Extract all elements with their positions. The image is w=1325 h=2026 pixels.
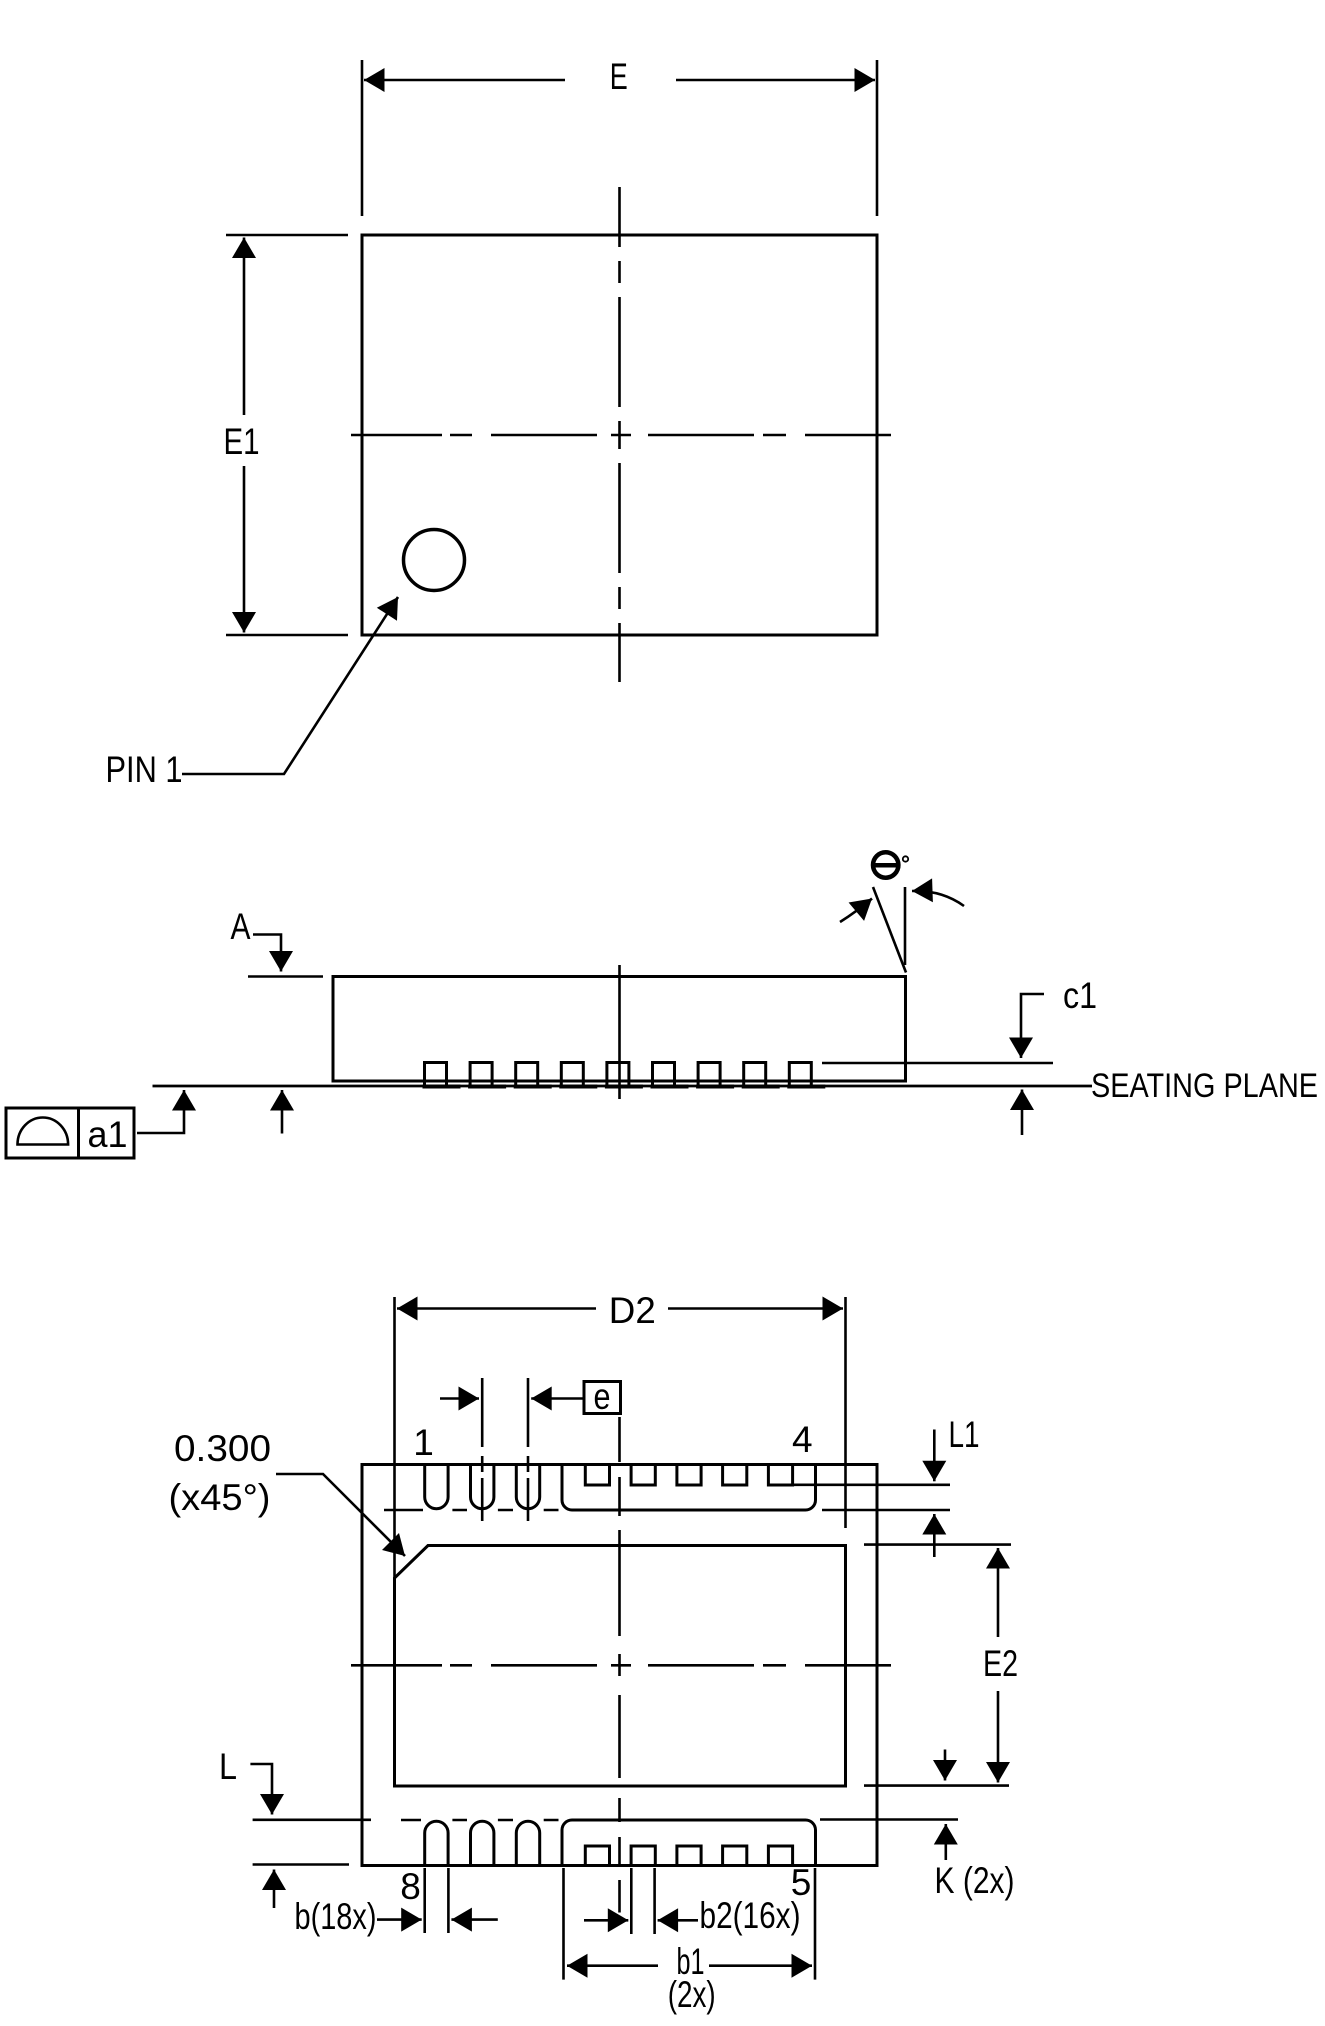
svg-text:4: 4 <box>792 1419 813 1460</box>
a1 leader with up arrow <box>137 1090 184 1133</box>
b1 dimension arrow right-pointing <box>709 1964 812 1967</box>
E2 dimension arrow down <box>997 1691 1000 1783</box>
theta slant edge line <box>873 887 906 973</box>
top view package body outline <box>362 235 877 635</box>
theta arc arrow right <box>912 891 964 906</box>
c1 extension line lead top <box>822 1062 1053 1065</box>
top slot pin 1 <box>425 1464 448 1509</box>
e label box <box>584 1382 621 1414</box>
svg-text:b2(16x): b2(16x) <box>700 1895 801 1936</box>
svg-text:L: L <box>219 1746 237 1787</box>
svg-text:A: A <box>231 906 251 947</box>
b dimension arrow right-pointing <box>377 1918 422 1921</box>
b1 extension lines <box>564 1868 816 1980</box>
top slot pin 3 <box>516 1464 539 1509</box>
L1 leader down arrow <box>933 1430 936 1482</box>
bottom wide lead pin 5 <box>562 1820 816 1866</box>
L1 extension line upper <box>793 1484 950 1487</box>
E1 extension line top <box>226 234 348 237</box>
bottom view horizontal centerline <box>351 1664 891 1667</box>
svg-text:K (2x): K (2x) <box>935 1860 1015 1901</box>
D2 extension line right <box>844 1297 847 1528</box>
bottom lead tip phantom dashes <box>401 1819 559 1822</box>
svg-text:e: e <box>594 1376 611 1417</box>
pin 1 index circle <box>404 530 465 591</box>
L up arrow <box>273 1870 276 1909</box>
svg-text:0.300: 0.300 <box>174 1428 271 1469</box>
svg-text:c1: c1 <box>1063 975 1097 1016</box>
E2 dimension arrow up <box>997 1548 1000 1637</box>
seating plane up arrow right <box>1021 1090 1024 1136</box>
lead feet bottom flanges <box>423 1085 826 1089</box>
e dimension pin2 centerline <box>481 1378 484 1447</box>
svg-text:L1: L1 <box>949 1414 980 1455</box>
a1 datum feature box <box>6 1108 134 1158</box>
K leader down arrow <box>944 1750 947 1781</box>
b2 dimension arrow left-pointing <box>658 1919 698 1922</box>
D2 dimension arrow left <box>397 1307 596 1310</box>
side view vertical centerline <box>618 965 621 1099</box>
K up arrow <box>944 1824 947 1860</box>
chamfer leader 0.300 <box>276 1474 405 1556</box>
bottom lead notches <box>585 1846 792 1866</box>
thermal pad outline with pin1 chamfer <box>395 1546 846 1787</box>
svg-text:PIN 1: PIN 1 <box>106 749 183 790</box>
b1 dimension arrow left-pointing <box>567 1964 658 1967</box>
theta reference vertical line <box>904 887 907 965</box>
bottom view vertical centerline <box>618 1417 621 1913</box>
svg-text:(x45°): (x45°) <box>169 1477 271 1518</box>
svg-text:8: 8 <box>400 1866 421 1907</box>
theta arc arrow left <box>840 899 872 923</box>
E1 dimension arrow down <box>243 466 246 633</box>
A leader with down arrow <box>253 935 281 972</box>
E2 extension line top <box>864 1543 1011 1546</box>
D2 dimension arrow right <box>668 1307 843 1310</box>
e dimension arrow left-pointing <box>531 1397 583 1400</box>
A extension line <box>248 975 323 978</box>
side view package body outline <box>333 977 906 1082</box>
theta symbol <box>871 852 901 877</box>
bottom slot pin 8 <box>425 1821 448 1866</box>
E dimension arrow left <box>364 79 565 82</box>
L lower extension line <box>253 1863 349 1866</box>
E2 extension line bottom <box>864 1784 1009 1787</box>
b dimension arrow left-pointing <box>451 1918 497 1921</box>
top lead tip phantom dashes <box>384 1509 559 1512</box>
L1 extension line lower <box>822 1509 950 1512</box>
svg-text:1: 1 <box>413 1422 434 1463</box>
seating plane line <box>153 1085 1093 1088</box>
E dimension extension line left <box>361 60 364 216</box>
b2 extension lines <box>631 1868 654 1934</box>
top view horizontal centerline <box>351 434 891 437</box>
bottom slot pin 6 <box>516 1821 539 1866</box>
K extension line <box>820 1818 958 1821</box>
a1 second up arrow <box>281 1090 284 1134</box>
bottom slot pin 7 <box>471 1821 494 1866</box>
svg-text:D2: D2 <box>609 1290 656 1331</box>
svg-text:b(18x): b(18x) <box>295 1896 377 1937</box>
L extension line <box>253 1819 371 1822</box>
svg-text:E: E <box>610 56 628 97</box>
degree mark <box>903 856 908 861</box>
e dimension arrow right-pointing <box>440 1397 479 1400</box>
E dimension arrow right <box>676 79 875 82</box>
e dimension pin3 centerline <box>527 1378 530 1447</box>
L leader with down arrow <box>250 1764 272 1815</box>
pin 1 leader line <box>182 597 398 774</box>
b extension lines <box>425 1868 449 1933</box>
lead feet squares <box>425 1063 812 1087</box>
E1 extension line bottom <box>226 634 348 637</box>
E dimension extension line right <box>876 60 879 216</box>
bottom view package outline <box>362 1465 877 1866</box>
top wide lead pin 4 <box>562 1465 816 1511</box>
top slot pin 2 <box>471 1464 494 1509</box>
svg-text:SEATING PLANE: SEATING PLANE <box>1091 1067 1318 1105</box>
E1 dimension arrow up <box>243 238 246 416</box>
top lead notches <box>585 1466 792 1485</box>
L1 up arrow <box>933 1514 936 1557</box>
svg-text:E1: E1 <box>224 421 260 462</box>
svg-text:a1: a1 <box>88 1114 128 1155</box>
top view vertical centerline <box>618 187 621 682</box>
c1 leader with down arrow <box>1021 994 1044 1058</box>
svg-text:(2x): (2x) <box>668 1974 716 2015</box>
b2 dimension arrow right-pointing <box>584 1919 628 1922</box>
svg-text:E2: E2 <box>983 1643 1018 1684</box>
D2 extension line left <box>393 1297 396 1578</box>
